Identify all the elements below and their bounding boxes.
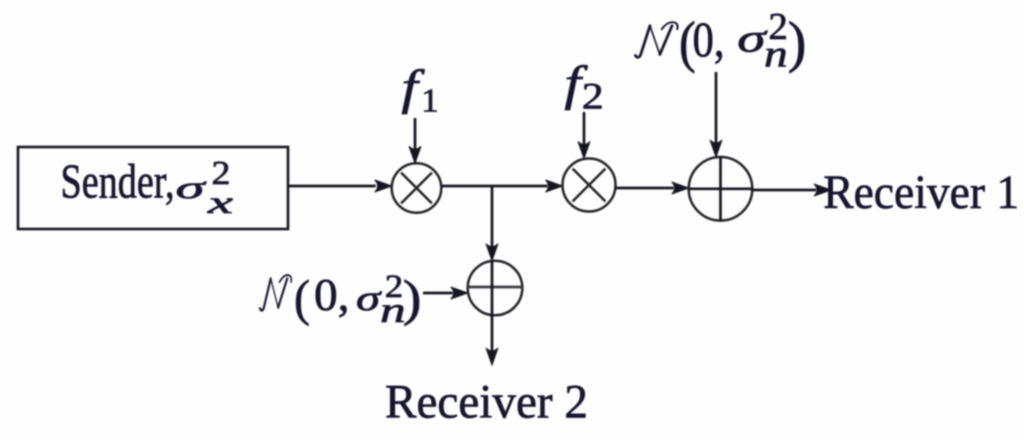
arrow f1 down into M1 [414,118,417,149]
svg-text:Receiver 2: Receiver 2 [385,376,588,429]
svg-text:0,: 0, [693,11,725,67]
multiplier M1 (circle with X) [392,163,442,213]
noise label N(0,sigma_n^2) top [635,22,677,57]
svg-text:0,: 0, [314,269,350,320]
multiplier M2 (circle with X) [563,159,616,212]
arrow f2 down into M2 [583,112,586,145]
adder A1 (circle with plus) [689,157,753,221]
svg-text:x: x [206,184,233,220]
wire sender box to multiplier M1 [288,185,376,188]
wire A1 to receiver 1 [752,189,816,192]
svg-text:Receiver 1: Receiver 1 [823,166,1019,219]
arrow noise down into A1 [715,72,718,143]
arrow noise right into A2 [423,292,453,295]
sender box [18,147,288,229]
svg-text:1: 1 [421,83,439,120]
wire M1 to multiplier M2 [441,185,547,188]
svg-text:σ: σ [176,169,207,205]
svg-text:σ: σ [356,278,382,318]
adder A2 (lower, circle with plus) [468,261,523,316]
junction branch down to adder A2 [491,186,494,247]
svg-text:): ) [788,11,807,74]
wire A2 down to receiver 2 [491,315,494,351]
svg-text:σ: σ [737,16,767,61]
wire M2 to adder A1 [616,187,674,190]
svg-text:2: 2 [582,77,604,118]
noise label N(0,sigma_n^2) left [260,275,291,310]
svg-text:): ) [403,271,422,327]
svg-text:n: n [764,34,788,76]
svg-text:(: ( [294,271,310,327]
svg-text:Sender,: Sender, [61,156,175,209]
